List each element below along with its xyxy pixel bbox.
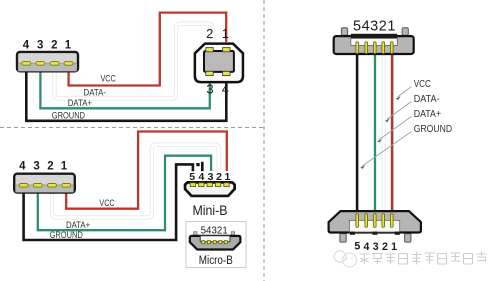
tab right [402, 28, 408, 36]
pin 3 (Mini-B) [207, 183, 212, 187]
connector Mini-B [185, 182, 235, 196]
arrow GROUND to black wire [362, 132, 411, 166]
connector USB-A (top) [17, 52, 78, 71]
connector Mini-B plug (bottom) [329, 211, 421, 242]
svg-text:4: 4 [19, 161, 26, 173]
arrow DATA+ to green wire [379, 117, 411, 140]
wire DATA+ green vertical [374, 54, 376, 211]
arrow VCC to red wire [360, 87, 411, 170]
pin 2 (USB-B) [206, 48, 213, 52]
svg-text:3: 3 [206, 81, 213, 96]
svg-text:1: 1 [65, 39, 72, 51]
pin 4 (USB-B) [223, 71, 230, 75]
svg-text:2: 2 [47, 161, 53, 173]
wire DATA- white vertical [382, 54, 386, 211]
bottom connector pins [356, 214, 393, 228]
body [334, 36, 414, 54]
svg-text:DATA+: DATA+ [66, 220, 91, 231]
top connector pins [356, 42, 393, 54]
svg-text:3: 3 [33, 161, 39, 173]
wire GROUND black (A pin4 to B pin4) [26, 69, 226, 121]
body [329, 211, 421, 232]
pin 5 (Mini-B) [190, 183, 195, 187]
black marks bottom [350, 232, 355, 235]
wire VCC red (A2 pin1 to Mini-B pin1) [66, 132, 227, 209]
wire GROUND black vertical [356, 54, 359, 211]
svg-text:4: 4 [222, 81, 229, 96]
pin 2 (Mini-B) [215, 183, 220, 187]
svg-text:3: 3 [37, 39, 43, 51]
wire DATA+ green (A2 pin3 to Mini-B pin3) [38, 156, 211, 231]
svg-text:4: 4 [23, 39, 30, 51]
svg-text:VCC: VCC [414, 79, 431, 90]
connector USB-B [195, 44, 243, 83]
wire DATA- white (A pin2 to B pin2) [55, 24, 213, 99]
pin 1 (USB-A top) [64, 62, 73, 66]
svg-text:2: 2 [206, 26, 213, 41]
connector USB-A (bottom) [14, 174, 75, 193]
ground stub tick to pin4 (Mini-B) [201, 162, 204, 171]
pin 1 (Mini-B) [224, 183, 229, 187]
wire GROUND black (A2 pin4 to Mini-B pin5) [24, 164, 193, 240]
wire VCC red vertical [391, 54, 394, 211]
svg-text:4: 4 [364, 241, 370, 253]
connector Micro-B [190, 236, 241, 250]
leg left [340, 234, 346, 243]
svg-text:1: 1 [391, 241, 397, 253]
Micro-B tab right [231, 232, 234, 235]
black bar [351, 34, 398, 39]
pin 3 (USB-A top) [36, 62, 45, 66]
pin 2 (USB-A bottom) [48, 184, 57, 188]
wire VCC red (A pin1 to B pin1) [69, 13, 227, 86]
svg-text:VCC: VCC [99, 198, 114, 209]
wire DATA+ green (A pin3 to B pin3) [40, 69, 209, 108]
svg-text:Micro-B: Micro-B [199, 255, 233, 267]
arrow DATA- to white wire [387, 102, 411, 120]
pin 3 (USB-B) [206, 71, 213, 75]
svg-text:VCC: VCC [101, 73, 116, 84]
svg-text:1: 1 [222, 26, 229, 41]
pin labels 5 4 3 2 1 (bottom connector) [354, 241, 397, 253]
svg-text:DATA+: DATA+ [414, 109, 442, 120]
Micro-B slot [200, 236, 230, 242]
pin 1 (USB-B) [223, 48, 230, 52]
svg-text:GROUND: GROUND [52, 111, 85, 122]
svg-text:1: 1 [61, 161, 68, 173]
tab left [341, 28, 347, 36]
pin 4 (USB-A bottom) [19, 184, 28, 188]
white slot [349, 220, 399, 232]
leg right [405, 234, 411, 243]
svg-text:2: 2 [382, 241, 388, 253]
pin 1 (USB-A bottom) [62, 184, 71, 188]
pin 4 (USB-A top) [22, 62, 31, 66]
Micro-B tab left [194, 232, 197, 235]
svg-text:GROUND: GROUND [50, 230, 83, 241]
svg-text:54321: 54321 [353, 19, 396, 35]
ground stub dot to pin4 (Mini-B ID pin) [196, 163, 199, 166]
divider horizontal dashed [0, 127, 264, 129]
wire DATA- white (A2 pin2 to Mini-B pin2) [52, 145, 219, 218]
white slot [351, 38, 398, 45]
svg-text:DATA-: DATA- [84, 88, 107, 99]
svg-text:GROUND: GROUND [414, 124, 452, 135]
watermark text (pseudo CJK glyphs) [360, 252, 487, 265]
Micro-B pins [202, 241, 228, 244]
pin 3 (USB-A bottom) [33, 184, 42, 188]
pin 4 (Mini-B) [199, 183, 204, 187]
Micro-B box [186, 222, 246, 268]
svg-text:3: 3 [373, 241, 379, 253]
pin labels 4 3 2 1 (USB-A bottom) [19, 161, 68, 173]
pin labels 5 4 3 2 1 (Mini-B) [189, 171, 230, 183]
divider vertical dashed [263, 0, 265, 281]
svg-text:5: 5 [354, 241, 360, 253]
pin labels 4 3 2 1 (USB-A top) [23, 39, 72, 51]
pin 2 (USB-A top) [50, 62, 59, 66]
svg-text:Mini-B: Mini-B [193, 202, 228, 218]
svg-text:DATA+: DATA+ [68, 98, 93, 109]
connector Mini-B receptacle (top) [334, 28, 414, 54]
svg-text:DATA-: DATA- [414, 94, 440, 105]
pin labels 2 1 (USB-B top) [206, 26, 229, 97]
svg-text:2: 2 [51, 39, 57, 51]
watermark logo [334, 251, 356, 267]
